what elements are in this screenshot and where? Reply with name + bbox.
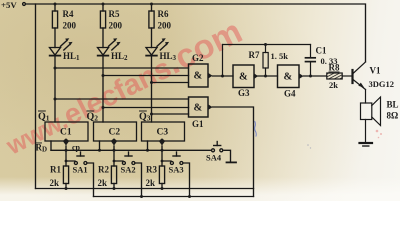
svg-text:SA3: SA3 [169, 165, 184, 175]
wire G1 output [213, 107, 254, 197]
svg-text:R3: R3 [146, 165, 157, 175]
resistor R1 [50, 160, 69, 190]
svg-text:R5: R5 [109, 9, 120, 19]
wire G2 out to G3 [213, 75, 234, 77]
bottom bus B wire [94, 196, 254, 198]
wire C3 reset lead [147, 141, 149, 150]
resistor R4 [52, 3, 76, 48]
svg-text:2k: 2k [50, 178, 60, 188]
svg-text:C3: C3 [157, 128, 169, 138]
speaker BL [361, 97, 399, 126]
svg-text:&: & [194, 103, 203, 114]
bottom bus A wire [36, 188, 254, 190]
wire feedback top [223, 44, 311, 46]
svg-text:HL2: HL2 [111, 51, 128, 62]
wire G2 input 3 [152, 82, 189, 84]
svg-text:G4: G4 [284, 89, 296, 99]
svg-text:R8: R8 [329, 63, 340, 73]
svg-text:&: & [239, 72, 248, 83]
transistor V1 [353, 62, 395, 90]
wire RD line [51, 149, 211, 151]
svg-text:www.elecfans.com: www.elecfans.com [0, 12, 248, 162]
wire cp lead 1 [65, 146, 67, 161]
svg-text:C2: C2 [109, 128, 121, 138]
svg-text:2k: 2k [98, 178, 108, 188]
svg-text:2k: 2k [146, 178, 156, 188]
nand gate G2 [189, 53, 213, 87]
svg-text:SA4: SA4 [206, 153, 222, 163]
+5V terminal [23, 3, 26, 6]
wire emitter down [365, 90, 367, 104]
wire G1 input 3 [152, 113, 189, 115]
svg-text:V1: V1 [370, 66, 381, 76]
wire G2 input 2 [103, 75, 189, 77]
svg-text:3DG12: 3DG12 [369, 79, 395, 89]
+5V rail wire [27, 4, 366, 62]
flip-flop C2 [94, 122, 137, 141]
wire R8 to base [342, 75, 352, 77]
nand gate G4 [278, 65, 304, 99]
flip-flop C1 [45, 122, 88, 141]
clock input wedge C2 [111, 138, 117, 145]
wire cp lead 3 [161, 146, 163, 161]
wire G1 input 2 [103, 107, 189, 109]
clock input wedge C3 [159, 138, 165, 145]
svg-text:cp: cp [72, 143, 81, 152]
svg-text:R4: R4 [63, 9, 74, 19]
wire cp lead 2 [113, 146, 115, 161]
resistor R5 [100, 3, 122, 48]
svg-text:+5V: +5V [1, 0, 17, 10]
svg-text:R2: R2 [98, 165, 109, 175]
svg-text:R1: R1 [50, 165, 61, 175]
svg-text:G1: G1 [192, 119, 204, 129]
resistor R6 [149, 3, 172, 48]
resistor R3 [146, 160, 165, 190]
svg-text:C1: C1 [60, 128, 72, 138]
left +5V bus wire [35, 4, 37, 189]
wire C2 reset lead [99, 141, 101, 150]
svg-text:SA2: SA2 [121, 165, 136, 175]
svg-text:G2: G2 [192, 53, 204, 63]
pen mark blue [255, 121, 257, 137]
resistor R7 [249, 43, 289, 78]
svg-text:HL1: HL1 [63, 51, 80, 62]
clock input wedge C1 [63, 138, 69, 145]
ground [360, 143, 373, 146]
svg-text:200: 200 [109, 21, 123, 31]
svg-text:R6: R6 [158, 9, 169, 19]
svg-text:BL: BL [387, 100, 399, 110]
flip-flop C3 [142, 122, 185, 141]
switch SA4 [206, 142, 236, 163]
wire G4 out to R8 [304, 75, 327, 77]
svg-text:SA1: SA1 [73, 165, 88, 175]
svg-text:Q2: Q2 [87, 112, 99, 123]
wire feedback vertical [222, 45, 224, 77]
svg-text:&: & [194, 71, 203, 82]
nand gate G3 [233, 65, 258, 98]
wire speaker to ground [365, 120, 367, 143]
LED HL3 [146, 38, 177, 62]
svg-text:200: 200 [158, 21, 172, 31]
wire LED column 2 [102, 56, 104, 122]
capacitor C1 [306, 45, 338, 78]
svg-text:8Ω: 8Ω [387, 111, 399, 121]
LED HL1 [50, 38, 81, 62]
wire LED column 3 [151, 56, 153, 122]
resistor R8 [327, 63, 342, 91]
resistor R2 [98, 160, 117, 190]
LED HL2 [98, 38, 129, 62]
wire G2 input 1 [55, 67, 189, 69]
svg-text:200: 200 [63, 21, 77, 31]
svg-text:C1: C1 [316, 46, 327, 56]
svg-text:&: & [284, 72, 293, 83]
wire C1 reset lead [50, 141, 52, 150]
svg-text:G3: G3 [238, 88, 250, 98]
switch SA3 [162, 152, 191, 198]
svg-text:Q3: Q3 [139, 112, 151, 123]
wire LED column 1 [54, 56, 56, 122]
pink specks [307, 130, 382, 149]
switch SA1 [66, 152, 94, 197]
wire G1 input 1 [55, 98, 189, 100]
svg-text:1. 5k: 1. 5k [271, 51, 289, 61]
svg-text:R7: R7 [249, 50, 260, 60]
nand gate G1 [189, 97, 213, 129]
svg-text:2k: 2k [329, 80, 338, 90]
svg-text:Q1: Q1 [38, 112, 50, 123]
switch SA2 [114, 152, 143, 198]
wire G3 out to G4 [254, 75, 278, 77]
